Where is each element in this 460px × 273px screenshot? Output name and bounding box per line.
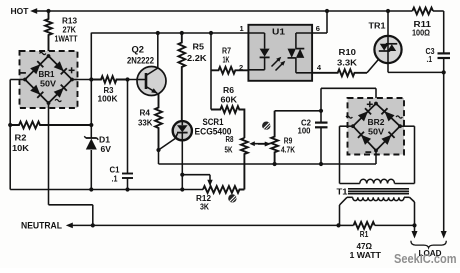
SCR1 gate wire <box>159 139 176 151</box>
HOT terminal arrow <box>30 8 48 14</box>
svg-text:R5: R5 <box>193 42 205 52</box>
wire Q2 base <box>128 79 147 81</box>
node Q2 collector junction <box>156 31 160 35</box>
node HOT junction <box>46 9 50 13</box>
BR2 polarity + top <box>367 101 373 107</box>
svg-text:27K: 27K <box>63 26 77 35</box>
svg-text:SeekIC.com: SeekIC.com <box>394 251 457 266</box>
SCR SCR1 <box>173 121 192 140</box>
wire TR1 gate <box>367 59 379 73</box>
R8 wiper arrow <box>249 141 270 146</box>
svg-text:R8: R8 <box>226 135 234 144</box>
wire BR2 bottom to mid node <box>375 151 377 165</box>
triac TR1 <box>374 36 401 63</box>
resistor R4 <box>155 94 162 150</box>
capacitor C1 <box>122 80 133 190</box>
svg-text:BR1: BR1 <box>39 70 56 79</box>
svg-text:100Ω: 100Ω <box>412 29 431 38</box>
svg-text:60K: 60K <box>221 96 238 105</box>
svg-text:R11: R11 <box>414 20 432 29</box>
wire left rail <box>9 80 11 190</box>
svg-text:TR1: TR1 <box>369 22 387 31</box>
node wiper tap junction <box>180 173 184 177</box>
wire neutral run <box>93 224 339 226</box>
zener diode D1 <box>84 125 98 190</box>
node R7 feed junction <box>209 31 213 35</box>
potentiometer R8 <box>241 138 248 190</box>
bridge rectifier BR1 <box>20 51 78 108</box>
wire top rail (R11 to right corner) <box>433 10 444 12</box>
wire right rail lower <box>443 58 445 232</box>
svg-text:6V: 6V <box>101 145 112 154</box>
svg-text:3.3K: 3.3K <box>337 59 357 68</box>
wire gate node to BR2 minus <box>159 163 377 165</box>
svg-text:.1: .1 <box>427 55 433 64</box>
svg-text:33K: 33K <box>138 118 153 127</box>
BR1 polarity - left <box>20 72 26 74</box>
svg-text:1: 1 <box>240 24 244 33</box>
svg-text:1WATT: 1WATT <box>55 35 78 44</box>
resistor R2 <box>10 122 91 129</box>
node SCR1 gate junction <box>156 148 160 152</box>
svg-text:HOT: HOT <box>11 6 30 16</box>
BR1 polarity ~ bottom <box>55 99 61 101</box>
node R2/D1 tap <box>89 123 93 127</box>
load arrow left <box>412 225 418 238</box>
svg-text:3K: 3K <box>200 202 209 211</box>
node R9 top C2 junction <box>319 109 323 113</box>
wire R9 top to C2 <box>275 110 321 112</box>
svg-text:6: 6 <box>316 24 320 33</box>
svg-text:4.7K: 4.7K <box>281 146 295 155</box>
R12 adjust marker <box>228 194 236 202</box>
BR1 polarity + right <box>69 67 75 73</box>
node bus SCR1 cathode <box>180 187 184 191</box>
R9 wiper arrow <box>258 142 270 147</box>
NEUTRAL arrow <box>66 223 93 229</box>
wire TR1 MT2 to right rail <box>388 63 444 72</box>
wire TR1 top riser <box>387 11 389 36</box>
resistor R13 <box>45 11 52 56</box>
node bus D1 <box>89 187 93 191</box>
wire BR2 left to T1 primary <box>340 126 360 183</box>
wire BR2 right to T1 primary <box>395 126 415 183</box>
resistor R1 <box>354 222 375 229</box>
node U1 pin6 junction on top rail <box>325 9 329 13</box>
wire BR1 bottom jog horizontal <box>49 204 93 206</box>
rheostat R12 <box>203 186 244 193</box>
svg-text:R6: R6 <box>223 86 235 95</box>
node R2 left on rail <box>8 123 12 127</box>
resistor R6 <box>211 106 244 138</box>
svg-text:T1: T1 <box>337 187 349 196</box>
BR2 polarity - bottom <box>365 151 371 153</box>
node R5 top junction <box>180 31 184 35</box>
svg-text:1 WATT: 1 WATT <box>350 251 382 260</box>
resistor R7 <box>211 67 248 74</box>
wire R1 to load node <box>375 224 415 226</box>
svg-text:100: 100 <box>298 126 312 135</box>
wire neutral to R1 <box>339 224 354 226</box>
LOAD brace <box>411 241 446 248</box>
wire BR1 left to left rail <box>10 79 25 81</box>
wire BR1 bottom drop <box>48 103 50 205</box>
node BR1 bottom to neutral junction <box>91 223 95 227</box>
potentiometer R9 <box>271 111 278 164</box>
svg-text:R7: R7 <box>222 47 231 56</box>
wire R12 wiper tap <box>182 175 210 180</box>
svg-text:BR2: BR2 <box>368 118 386 127</box>
resistor R3 <box>91 76 127 83</box>
svg-text:50V: 50V <box>368 128 385 137</box>
svg-text:2.2K: 2.2K <box>187 53 207 63</box>
node C2 bottom <box>319 162 323 166</box>
wire long rail to U1 pin1 <box>91 32 248 34</box>
wire C2 top to BR2 plus <box>321 88 376 103</box>
svg-text:R1: R1 <box>360 230 369 239</box>
node TR1 top junction on top rail <box>386 9 390 13</box>
svg-text:C1: C1 <box>110 166 121 175</box>
wire SCR1 cathode <box>181 140 183 190</box>
capacitor C3 <box>438 53 451 58</box>
R12 wiper arrow <box>207 180 212 187</box>
wire Q2 collector riser <box>157 33 159 68</box>
node T1 secondary left <box>336 223 340 227</box>
transformer T1 <box>340 179 415 225</box>
svg-text:U1: U1 <box>272 28 286 37</box>
svg-text:SCR1: SCR1 <box>203 117 224 127</box>
wire R7 R6 feed vertical <box>210 33 212 110</box>
node C1 tap <box>125 77 129 81</box>
svg-text:R9: R9 <box>284 136 293 145</box>
wire U1 pin6 riser <box>312 11 327 33</box>
wire ground bus <box>10 189 203 191</box>
bridge rectifier BR2 <box>348 98 405 155</box>
svg-text:.1: .1 <box>112 175 118 184</box>
svg-text:1K: 1K <box>223 56 230 65</box>
svg-text:10K: 10K <box>12 144 29 153</box>
node TR1 right rail junction <box>442 70 446 74</box>
wire R4 to bottom node <box>158 150 160 164</box>
svg-text:2N2222: 2N2222 <box>127 55 154 66</box>
node R9 bottom <box>273 162 277 166</box>
svg-text:2: 2 <box>239 63 243 72</box>
BR1 polarity ~ top <box>40 52 46 54</box>
BR2 polarity ~ right <box>396 116 402 118</box>
svg-text:R4: R4 <box>140 108 151 117</box>
wire top rail (HOT to R11) <box>49 10 413 12</box>
resistor R11 <box>412 8 433 15</box>
R9 adjust marker <box>262 122 270 130</box>
node bus C1 <box>125 187 129 191</box>
svg-text:5K: 5K <box>225 145 233 154</box>
svg-text:D1: D1 <box>99 136 111 145</box>
svg-text:Q2: Q2 <box>132 45 145 55</box>
svg-text:R13: R13 <box>62 17 78 26</box>
resistor R5 <box>178 33 185 122</box>
svg-text:R10: R10 <box>339 48 357 57</box>
optocoupler U1 <box>248 25 312 81</box>
wire BR1 right to node <box>72 79 91 81</box>
svg-text:100K: 100K <box>98 94 118 103</box>
svg-text:NEUTRAL: NEUTRAL <box>21 221 62 231</box>
wire DC plus rail vertical <box>90 33 92 125</box>
BR2 polarity ~ left <box>346 116 352 118</box>
resistor R10 <box>312 69 367 76</box>
svg-text:47Ω: 47Ω <box>357 242 373 251</box>
node R3 tap <box>89 77 93 81</box>
wire right rail upper <box>443 11 445 53</box>
node load left <box>412 223 416 227</box>
load arrow right <box>441 231 447 239</box>
svg-text:50V: 50V <box>40 80 57 89</box>
capacitor C2 <box>315 88 328 164</box>
transistor Q2 <box>137 67 166 96</box>
svg-text:R2: R2 <box>15 133 28 142</box>
wire BR1 bottom jog drop to neutral <box>92 205 94 226</box>
